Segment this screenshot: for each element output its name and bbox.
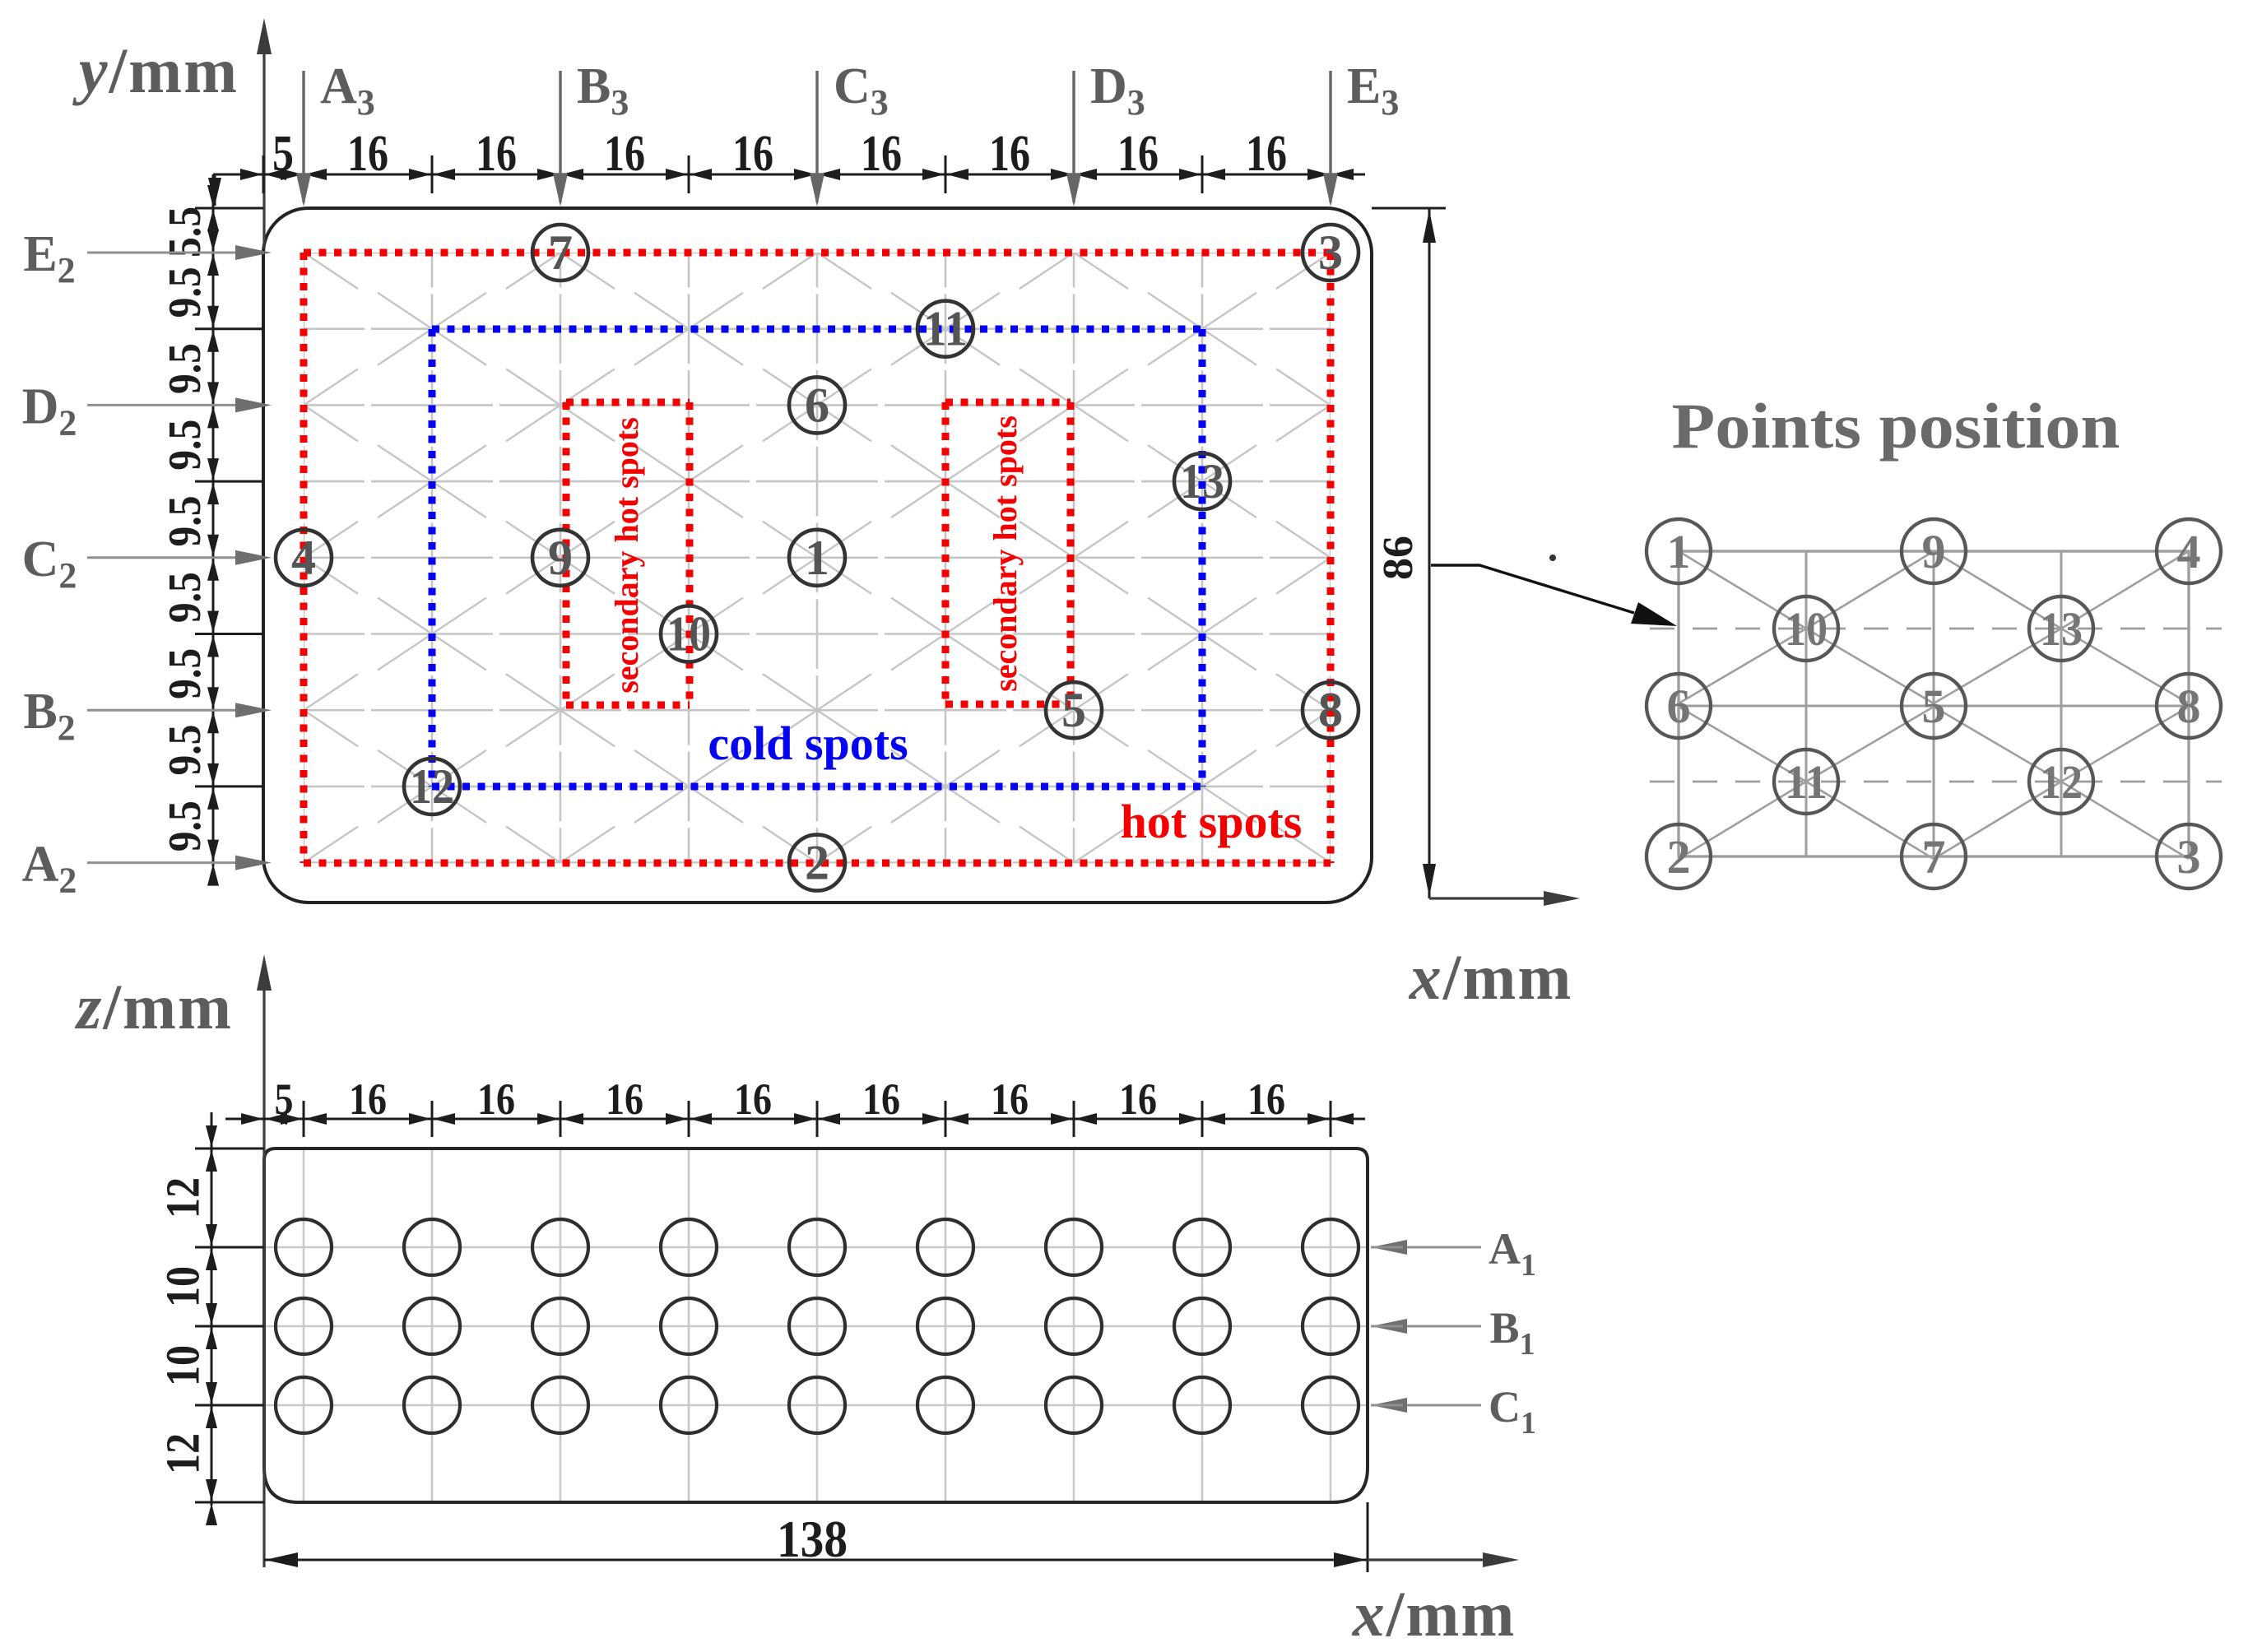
row label E2 with leader arrow [23,226,272,290]
bottom left dimension labels (rotated) [156,1177,209,1474]
svg-text:8: 8 [2177,680,2201,733]
vertical dimension line 86 [1423,208,1436,898]
left dimension chain line with arrowheads (x=259) [195,174,263,886]
cold spots label [708,717,908,770]
svg-text:9.5: 9.5 [160,725,211,776]
svg-text:9.5: 9.5 [160,420,211,471]
cold spots boundary (blue dotted rectangle) [432,329,1202,787]
measurement point 10 [661,606,717,662]
measurement point 9 [532,530,588,586]
svg-text:10: 10 [156,1266,209,1307]
secondary hot spots rectangle 1 (red dotted) [566,402,690,705]
inset title: Points position [1672,390,2120,462]
svg-text:5: 5 [275,1074,294,1124]
svg-text:7: 7 [548,225,573,280]
svg-text:5: 5 [1061,683,1086,737]
svg-text:4: 4 [291,531,316,585]
svg-text:16: 16 [732,126,773,182]
secondary hot spots text 2 (rotated) [987,415,1024,692]
svg-text:10: 10 [156,1345,209,1386]
inset point 8 [2157,674,2221,738]
svg-text:16: 16 [604,126,645,182]
inset point 3 [2157,824,2221,889]
svg-text:9.5: 9.5 [160,343,211,394]
svg-text:16: 16 [734,1074,772,1124]
inset point 9 [1902,519,1966,583]
svg-text:16: 16 [1246,126,1287,182]
svg-text:5: 5 [1922,680,1946,733]
dimension label 86 (rotated) [1375,536,1422,580]
inset point 7 [1902,824,1966,889]
bottom view: light grid lines [266,1150,1366,1501]
svg-text:9.5: 9.5 [160,648,211,699]
svg-text:11: 11 [923,302,968,356]
svg-text:16: 16 [991,1074,1029,1124]
inset point 11 [1774,749,1838,814]
inset point 2 [1647,824,1711,889]
svg-text:12: 12 [410,759,454,814]
svg-text:hot spots: hot spots [1121,795,1303,848]
measurement point 7 [532,225,588,281]
top view: plate outline (138x86 plate, rounded corners) [263,208,1372,903]
z-axis arrowhead [257,954,272,991]
svg-text:y/mm: y/mm [72,35,239,106]
svg-text:secondary hot spots: secondary hot spots [987,415,1024,692]
row label D2 with leader arrow [22,378,272,443]
row label C1 with leader arrow [1371,1382,1536,1441]
svg-text:1: 1 [805,531,829,585]
svg-text:12: 12 [156,1433,209,1474]
inset point 5 [1902,674,1966,738]
bottom dimension line 138 [264,1502,1368,1572]
bottom view: 9x3 hole circles [276,1219,1359,1433]
extension line top-right corner [1372,207,1446,210]
bottom left dimension chain (12,10,10,12) [195,1112,264,1525]
svg-text:9: 9 [1922,525,1946,578]
measurement point 13 [1174,453,1230,509]
svg-text:86: 86 [1375,536,1422,580]
svg-text:9.5: 9.5 [160,572,211,623]
inset point 6 [1647,674,1711,738]
axis label y/mm [72,35,239,106]
measurement point 1 [789,530,845,586]
svg-text:16: 16 [606,1074,643,1124]
dimension label 138 [777,1510,848,1568]
svg-text:10: 10 [667,607,711,661]
svg-text:13: 13 [2040,602,2083,656]
bottom x-axis line [1368,1552,1519,1567]
axis label x/mm (bottom view) [1352,1578,1516,1650]
top view: light-gray measurement mesh (rows, columns, diagonal stars) [249,216,1385,899]
svg-text:16: 16 [1247,1074,1285,1124]
top view x-axis line [1429,891,1580,906]
row label A2 with leader arrow [22,837,272,901]
svg-text:10: 10 [1785,602,1828,656]
svg-text:1: 1 [1667,525,1691,578]
svg-text:16: 16 [349,1074,387,1124]
row label B2 with leader arrow [23,684,272,748]
measurement point 11 [917,301,973,357]
svg-text:6: 6 [1667,680,1691,733]
svg-text:16: 16 [347,126,388,182]
svg-text:9.5: 9.5 [160,800,211,852]
svg-text:5: 5 [272,126,294,182]
svg-text:7: 7 [1922,830,1946,884]
row label A1 with leader arrow [1371,1224,1536,1283]
svg-text:3: 3 [1318,225,1343,280]
row label C2 with leader arrow [22,531,272,596]
svg-text:9: 9 [548,531,573,585]
svg-text:12: 12 [2040,755,2083,809]
row label B1 with leader arrow [1371,1303,1535,1362]
y-axis arrowhead [257,18,272,54]
small stray dot [1549,555,1556,561]
bottom view: plate outline [264,1149,1368,1502]
svg-text:2: 2 [1667,830,1691,884]
inset point 13 [2029,596,2093,661]
svg-text:x/mm: x/mm [1409,941,1573,1013]
svg-text:13: 13 [1180,454,1224,508]
svg-text:16: 16 [476,126,517,182]
measurement point 5 [1046,682,1102,738]
measurement point 2 [789,835,845,891]
secondary hot spots text 1 (rotated) [608,417,645,694]
inset point 1 [1647,519,1711,583]
svg-text:3: 3 [2177,830,2201,884]
top dimension chain line with arrowheads (y=212) [208,155,1365,206]
measurement point 12 [404,759,460,814]
svg-text:8: 8 [1318,683,1343,737]
svg-text:secondary hot spots: secondary hot spots [608,417,645,694]
secondary hot spots rectangle 2 (red dotted) [945,402,1071,704]
z-axis line [262,961,265,1567]
svg-text:6: 6 [805,378,829,432]
svg-text:x/mm: x/mm [1352,1578,1516,1650]
svg-text:5.5: 5.5 [160,206,211,258]
inset point 4 [2157,519,2221,583]
svg-text:16: 16 [861,126,902,182]
svg-text:11: 11 [1785,755,1828,809]
hot spots boundary (red dotted rectangle) [304,253,1331,863]
svg-text:2: 2 [805,836,829,890]
svg-text:138: 138 [777,1510,848,1568]
measurement point 3 [1303,225,1359,281]
svg-text:16: 16 [477,1074,515,1124]
top dimension labels 5,16x8 [272,126,1287,182]
svg-text:16: 16 [862,1074,900,1124]
axis label z/mm [74,971,233,1042]
left dimension labels 5.5, 9.5 x8 (rotated) [160,206,211,852]
svg-text:z/mm: z/mm [74,971,233,1042]
svg-text:16: 16 [1119,1074,1157,1124]
column labels A3 B3 C3 D3 E3 [320,58,1399,123]
svg-text:cold spots: cold spots [708,717,908,770]
measurement point 8 [1303,682,1359,738]
bottom dimension chain line (y=1360) [225,1101,1365,1137]
measurement point 4 [276,530,332,586]
svg-text:9.5: 9.5 [160,267,211,318]
bottom dimension labels 5,16x8 [275,1074,1286,1124]
inset grid lines and diagonals [1650,551,2222,859]
inset point 12 [2029,749,2093,814]
measurement point 6 [789,377,845,433]
leader arrow from plate to points-position inset [1431,565,1677,626]
svg-text:16: 16 [989,126,1030,182]
svg-text:9.5: 9.5 [160,495,211,546]
inset point 10 [1774,596,1838,661]
column marker lines A3-E3 with arrowheads [296,71,1338,206]
axis label x/mm (top view) [1409,941,1573,1013]
svg-text:16: 16 [1117,126,1159,182]
svg-text:12: 12 [156,1177,209,1218]
hot spots label [1121,795,1303,848]
svg-text:4: 4 [2177,525,2201,578]
svg-text:Points position: Points position [1672,390,2120,462]
y-axis line [262,25,265,248]
